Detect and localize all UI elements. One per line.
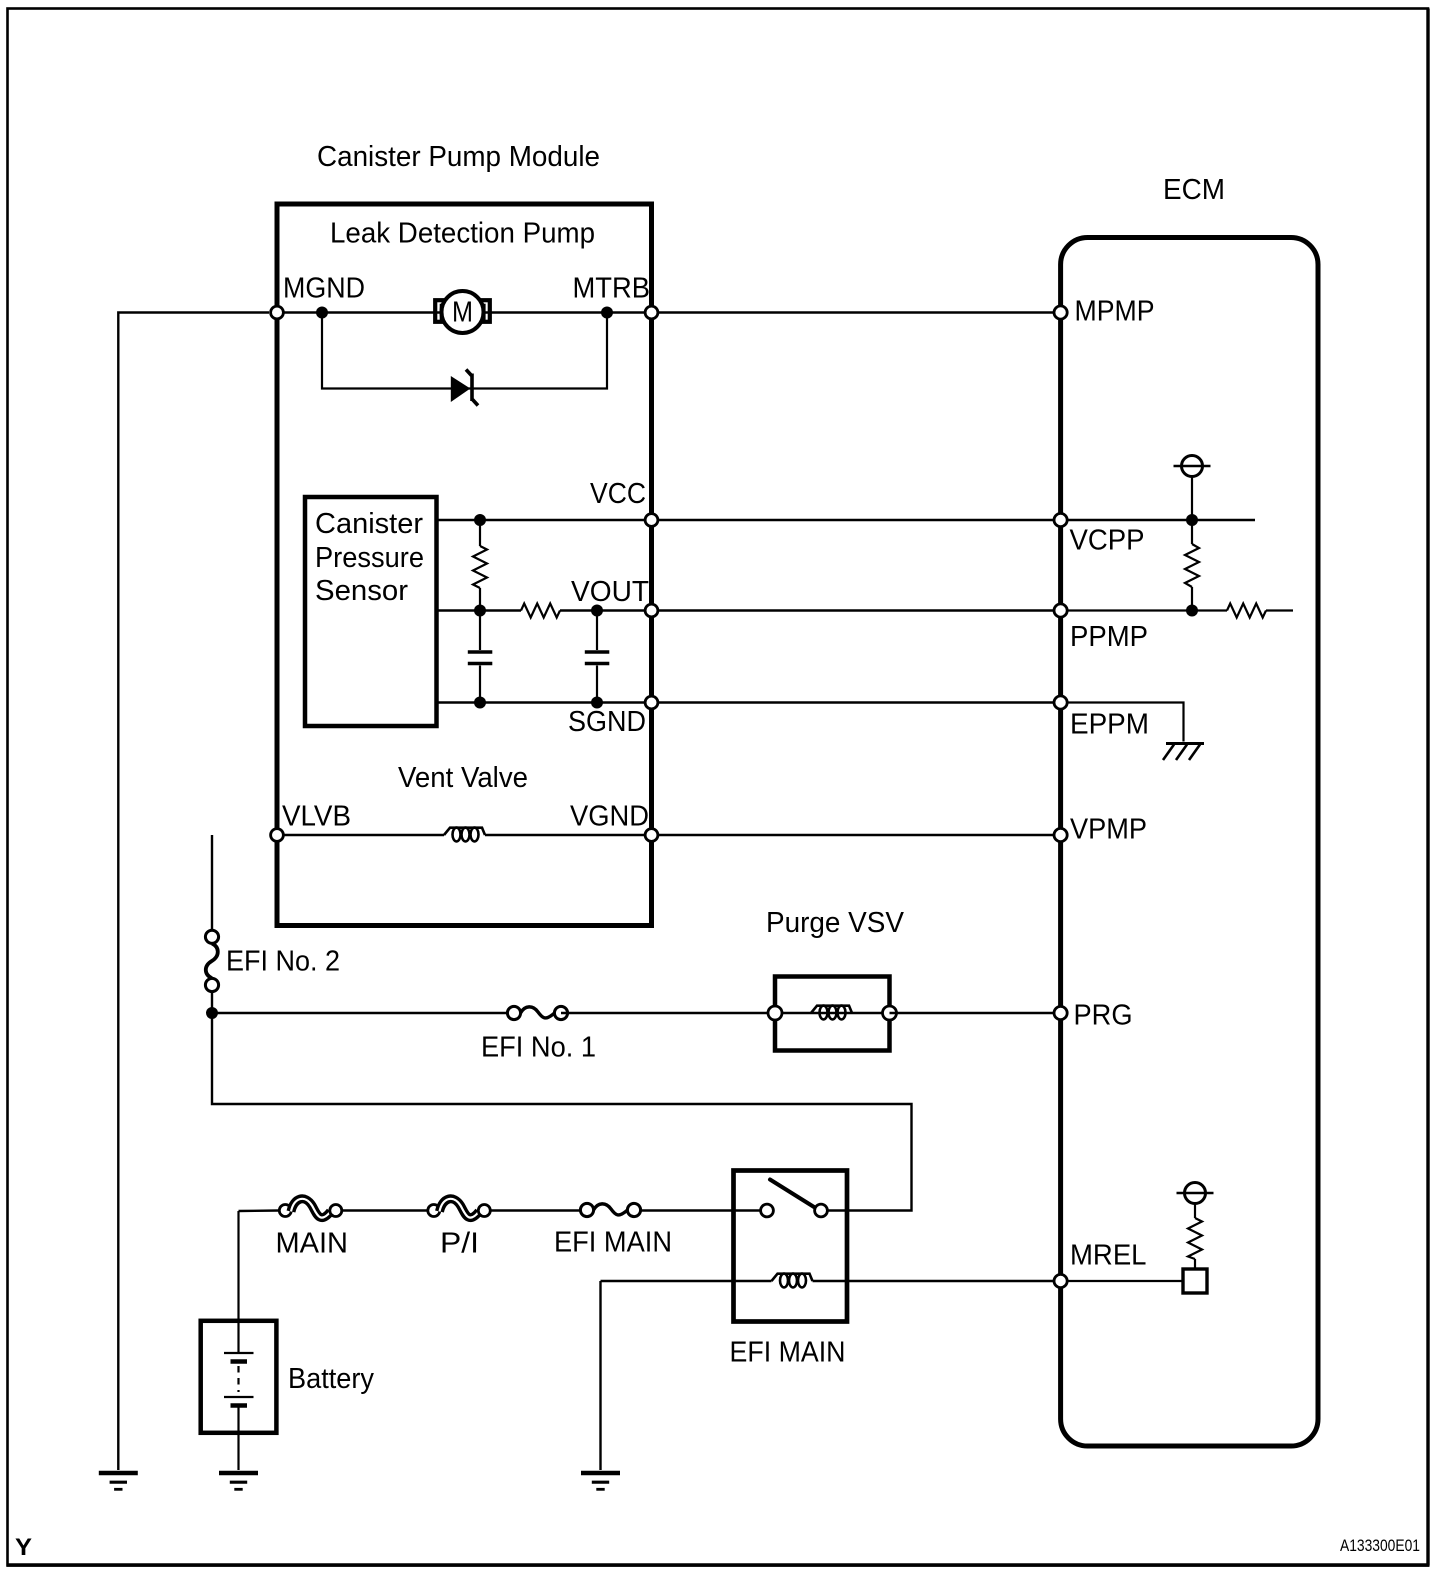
- fuse EFI No. 1: [507, 1006, 567, 1019]
- wire fuse EFI No.1 to purge VSV: [561, 1012, 775, 1014]
- wire coil to VGND: [485, 834, 652, 836]
- junction dot VOUT/C2: [591, 605, 603, 617]
- resistor R3 (VCPP pull-up): [1185, 520, 1199, 611]
- wire MAIN to P/I: [342, 1209, 428, 1211]
- ground (left chassis ground): [99, 1473, 138, 1489]
- wire relay coil to ECM MREL: [813, 1280, 1061, 1282]
- pin PPMP: [1054, 604, 1067, 617]
- pin SGND: [645, 696, 658, 709]
- wire PPMP internal to resistor: [1061, 609, 1227, 611]
- svg-text:PPMP: PPMP: [1070, 621, 1148, 653]
- svg-text:Canister Pump Module: Canister Pump Module: [317, 141, 600, 173]
- junction dot EFI No.2 / EFI No.1: [206, 1007, 218, 1019]
- wire relay switch row: [734, 1209, 768, 1211]
- capacitor C2 (VOUT to SGND at module pin): [585, 611, 610, 703]
- relay EFI MAIN box: [734, 1171, 848, 1322]
- svg-text:M: M: [452, 297, 473, 329]
- svg-text:Leak Detection Pump: Leak Detection Pump: [330, 218, 595, 250]
- svg-text:SGND: SGND: [568, 706, 646, 738]
- pin VCPP: [1054, 513, 1067, 526]
- fuse EFI No. 2: [205, 930, 218, 991]
- capacitor C1 (VOUT to SGND): [468, 611, 493, 703]
- resistor R5 (MREL pull): [1188, 1218, 1202, 1269]
- ECM box: [1061, 238, 1318, 1447]
- pin VSV left: [768, 1006, 782, 1020]
- junction dot MTRB: [601, 307, 613, 319]
- wire junction down to bottom run: [212, 1013, 912, 1211]
- wire PPMP internal: [1266, 609, 1293, 611]
- wire relay right contact to box edge: [827, 1209, 847, 1211]
- junction dot VCPP: [1186, 514, 1198, 526]
- pin MTRB: [645, 306, 658, 319]
- diode D1: [451, 370, 478, 406]
- driver block (MREL output stage): [1183, 1269, 1207, 1293]
- junction dot SGND/C2: [591, 697, 603, 709]
- pin VGND: [645, 829, 658, 842]
- junction dot SGND/C1: [474, 697, 486, 709]
- resistor R4 (PPMP series): [1227, 604, 1266, 618]
- wire battery to MAIN fusible link: [239, 1209, 280, 1212]
- svg-text:Vent Valve: Vent Valve: [398, 762, 528, 794]
- wire inside purge VSV: [775, 1012, 890, 1014]
- wire EPPM internal: [1061, 703, 1184, 742]
- ground (battery chassis ground): [219, 1473, 258, 1489]
- pin VOUT: [645, 604, 658, 617]
- svg-text:Battery: Battery: [288, 1363, 374, 1395]
- junction dot VCC/R1: [474, 514, 486, 526]
- svg-text:Purge VSV: Purge VSV: [766, 907, 905, 939]
- inductor L3 (EFI MAIN relay coil): [772, 1274, 813, 1288]
- power source symbol (VCPP pull-up supply): [1174, 456, 1211, 521]
- wire VCC: sensor to ECM VCPP: [437, 519, 1061, 521]
- svg-text:A133300E01: A133300E01: [1340, 1536, 1420, 1555]
- svg-text:Y: Y: [15, 1534, 32, 1561]
- canister pump module box: [277, 204, 652, 926]
- svg-text:Pressure: Pressure: [315, 542, 424, 574]
- svg-text:VCPP: VCPP: [1070, 525, 1145, 557]
- svg-text:EPPM: EPPM: [1070, 709, 1149, 741]
- wire MGND-MTRB through motor: [277, 311, 652, 313]
- wire P/I to EFI MAIN fuse: [490, 1209, 580, 1211]
- power source symbol (MREL supply): [1177, 1183, 1214, 1219]
- pin VLVB: [271, 829, 284, 842]
- wire VCPP internal: [1061, 519, 1255, 521]
- svg-text:PRG: PRG: [1074, 1000, 1133, 1032]
- wire MGND to left ground (node MGND run): [118, 313, 269, 1471]
- resistor R1 (sensor pull, VCC to VOUT): [473, 520, 487, 611]
- ground (EPPM signal ground, hatched): [1163, 744, 1204, 761]
- resistor R2 (VOUT series): [521, 604, 560, 618]
- pin VCC: [645, 514, 658, 527]
- svg-text:EFI No. 2: EFI No. 2: [226, 946, 340, 978]
- junction dot MGND: [316, 307, 328, 319]
- purge VSV box: [775, 977, 890, 1051]
- pin VSV right: [883, 1006, 897, 1020]
- fuse EFI MAIN: [580, 1203, 640, 1216]
- svg-text:MREL: MREL: [1070, 1240, 1147, 1272]
- wire VOUT: resistor to ECM PPMP: [560, 609, 1061, 611]
- wire SGND: sensor to ECM EPPM: [437, 701, 1061, 703]
- pin VPMP: [1054, 828, 1067, 841]
- wire EFI MAIN fuse to relay: [641, 1209, 734, 1211]
- svg-text:Canister: Canister: [315, 508, 423, 540]
- wire VOUT: sensor to resistor: [437, 609, 522, 611]
- svg-text:MGND: MGND: [283, 273, 365, 305]
- svg-text:EFI MAIN: EFI MAIN: [730, 1337, 846, 1369]
- wire relay coil row (left, to ground drop): [601, 1280, 772, 1282]
- wire fuse EFI No.2 to junction: [211, 992, 213, 1014]
- svg-text:MTRB: MTRB: [573, 273, 651, 305]
- pin EPPM: [1054, 696, 1067, 709]
- svg-text:VGND: VGND: [570, 801, 649, 833]
- motor U1 (pump motor): [435, 291, 490, 333]
- inductor L1 (vent valve solenoid): [444, 828, 485, 842]
- pin PRG: [1054, 1006, 1067, 1019]
- pin MPMP: [1054, 306, 1067, 319]
- svg-text:VLVB: VLVB: [282, 801, 351, 833]
- svg-text:EFI MAIN: EFI MAIN: [554, 1227, 672, 1259]
- ground (relay coil chassis ground): [581, 1473, 620, 1489]
- svg-text:P/I: P/I: [440, 1228, 479, 1260]
- wire MTRB to ECM MPMP: [652, 311, 1061, 313]
- diode D1 loop wires: [322, 313, 607, 389]
- wire purge VSV to ECM PRG: [890, 1012, 1061, 1014]
- wire VLVB to vent valve coil: [277, 834, 444, 836]
- wire MREL internal: [1061, 1280, 1183, 1282]
- wire coil ground drop: [599, 1281, 601, 1470]
- svg-text:Sensor: Sensor: [315, 575, 408, 607]
- svg-text:VPMP: VPMP: [1070, 814, 1147, 846]
- svg-text:VCC: VCC: [590, 478, 646, 510]
- junction dot VOUT/R1/C1: [474, 605, 486, 617]
- svg-text:ECM: ECM: [1163, 174, 1225, 206]
- battery B1: [201, 1211, 277, 1470]
- junction dot PPMP: [1186, 605, 1198, 617]
- svg-text:MPMP: MPMP: [1075, 296, 1155, 328]
- canister pressure sensor box: [305, 497, 437, 726]
- inductor L2 (purge VSV solenoid): [811, 1006, 852, 1020]
- svg-text:MAIN: MAIN: [276, 1228, 349, 1260]
- pin MGND: [271, 306, 284, 319]
- wire junction to fuse EFI No.1: [212, 1012, 514, 1014]
- wire VLVB to EFI No.2 fuse: [211, 835, 213, 931]
- fusible link P/I: [428, 1199, 491, 1218]
- fusible link MAIN: [279, 1199, 342, 1218]
- svg-text:VOUT: VOUT: [571, 576, 649, 608]
- pin MREL: [1054, 1274, 1067, 1287]
- wire VGND to ECM VPMP: [652, 834, 1061, 836]
- relay switch contacts and blade: [761, 1180, 828, 1217]
- svg-text:EFI No. 1: EFI No. 1: [481, 1032, 596, 1064]
